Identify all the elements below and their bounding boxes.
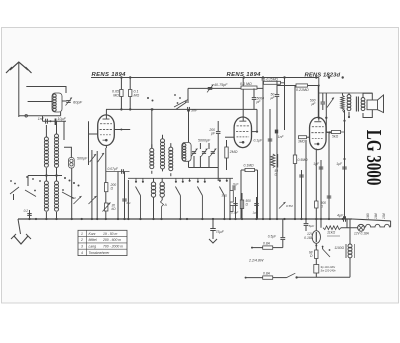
svg-text:0.1µF: 0.1µF xyxy=(254,139,263,143)
svg-text:3: 3 xyxy=(81,245,83,249)
svg-text:0.1µF: 0.1µF xyxy=(231,211,238,215)
svg-text:0.8A: 0.8A xyxy=(263,242,271,246)
svg-text:5kΩ: 5kΩ xyxy=(332,135,339,139)
svg-text:1µF: 1µF xyxy=(336,162,343,166)
svg-text:Tonabnehmer: Tonabnehmer xyxy=(89,251,111,255)
svg-text:Kurz: Kurz xyxy=(89,232,96,236)
svg-text:3MΩ: 3MΩ xyxy=(298,140,305,144)
svg-text:60pF: 60pF xyxy=(73,100,83,105)
svg-text:0.07µF: 0.07µF xyxy=(108,167,119,171)
svg-text:kΩ: kΩ xyxy=(112,207,117,211)
svg-text:F3: F3 xyxy=(72,196,76,200)
svg-text:2.2/4.8W: 2.2/4.8W xyxy=(248,259,264,263)
svg-text:0.1: 0.1 xyxy=(127,201,132,205)
svg-text:0.2: 0.2 xyxy=(24,209,29,213)
svg-text:2µF: 2µF xyxy=(232,183,240,187)
svg-text:0.21MΩ: 0.21MΩ xyxy=(296,88,309,92)
svg-text:1100Ω: 1100Ω xyxy=(334,246,344,250)
svg-text:8µF: 8µF xyxy=(309,224,314,228)
svg-text:Sw 220-240v: Sw 220-240v xyxy=(321,269,337,273)
svg-text:0.1-0.25MΩ: 0.1-0.25MΩ xyxy=(261,77,278,81)
svg-text:180: 180 xyxy=(366,213,370,219)
svg-text:Mittel: Mittel xyxy=(89,238,97,242)
svg-text:4: 4 xyxy=(81,251,83,255)
svg-text:3nF: 3nF xyxy=(191,109,198,113)
svg-text:1nF: 1nF xyxy=(38,117,45,121)
svg-text:1nF: 1nF xyxy=(278,135,285,139)
svg-text:184: 184 xyxy=(374,213,378,219)
svg-text:0.5µF: 0.5µF xyxy=(268,235,277,239)
svg-text:0.5M: 0.5M xyxy=(286,204,293,208)
svg-text:0.1MΩ: 0.1MΩ xyxy=(244,164,255,168)
svg-text:1µF: 1µF xyxy=(253,211,258,215)
svg-text:5000pF: 5000pF xyxy=(198,139,211,143)
svg-text:154: 154 xyxy=(382,213,386,219)
svg-text:10µF: 10µF xyxy=(58,117,67,121)
svg-text:0.18A: 0.18A xyxy=(304,236,314,240)
svg-text:2MΩ: 2MΩ xyxy=(229,150,238,154)
svg-text:40-75pF: 40-75pF xyxy=(214,83,228,87)
svg-text:19 - 50 m: 19 - 50 m xyxy=(103,232,117,236)
svg-text:12V 0.18A: 12V 0.18A xyxy=(354,232,369,236)
svg-text:1µF: 1µF xyxy=(313,162,320,166)
svg-text:200 - 600 m: 200 - 600 m xyxy=(102,238,121,242)
svg-text:0.1 MΩ: 0.1 MΩ xyxy=(240,82,252,86)
svg-text:LG 3000: LG 3000 xyxy=(362,130,385,186)
svg-text:MΩ: MΩ xyxy=(134,94,140,98)
svg-text:11kΩ: 11kΩ xyxy=(327,231,336,235)
svg-text:75µF: 75µF xyxy=(216,230,225,234)
svg-text:Lang: Lang xyxy=(89,245,97,249)
svg-text:MΩ: MΩ xyxy=(113,94,119,98)
svg-text:1: 1 xyxy=(81,232,83,236)
svg-text:Sp 110-130v: Sp 110-130v xyxy=(321,265,336,269)
svg-text:30Ω: 30Ω xyxy=(221,194,227,198)
svg-text:700 - 2000 m: 700 - 2000 m xyxy=(103,245,123,249)
svg-text:0.8A: 0.8A xyxy=(263,272,271,276)
svg-text:500pF: 500pF xyxy=(77,157,88,161)
svg-text:Ω: Ω xyxy=(111,187,114,191)
svg-text:4µF: 4µF xyxy=(337,214,344,218)
svg-text:2: 2 xyxy=(80,238,83,242)
svg-text:RENS 1823d: RENS 1823d xyxy=(305,73,341,79)
